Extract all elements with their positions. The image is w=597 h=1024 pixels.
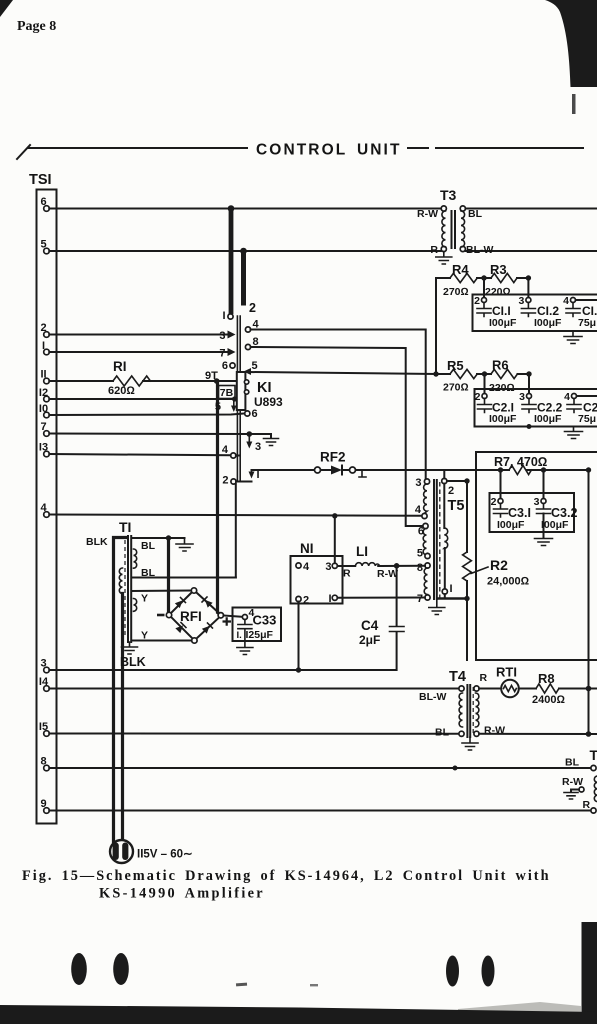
terminal 4 — [44, 512, 50, 518]
svg-text:5: 5 — [215, 401, 221, 413]
resistor R1 — [113, 376, 150, 386]
RF1 corner left — [166, 612, 171, 617]
svg-text:RFI: RFI — [180, 609, 202, 624]
K1 contact 7 arrow — [228, 348, 236, 356]
T5 bottom wire — [436, 597, 467, 600]
wire C2 pin4 to right edge — [577, 395, 597, 397]
wire RT1 to R8 — [519, 688, 536, 690]
T3 pin right-top — [460, 206, 465, 211]
svg-text:II5V – 60∼: II5V – 60∼ — [137, 849, 193, 861]
title rule left slant — [17, 145, 30, 159]
capacitor C2.2 symbol — [522, 399, 536, 413]
wire R8 to right bus — [559, 688, 597, 690]
svg-text:BL: BL — [468, 208, 483, 220]
svg-text:I00μF: I00μF — [534, 317, 562, 329]
node C4 tap — [394, 563, 400, 569]
ground below T3 — [436, 252, 452, 264]
svg-text:I25μF: I25μF — [246, 629, 274, 641]
svg-text:620Ω: 620Ω — [108, 385, 135, 397]
svg-text:R-W: R-W — [377, 568, 398, 580]
wire T5 pin2 to R2 — [447, 480, 467, 482]
ground below T5 — [429, 599, 445, 615]
terminal 12 — [44, 396, 50, 402]
wire terminal 9 R bus — [49, 810, 591, 812]
svg-text:BL: BL — [141, 540, 156, 552]
heavy drop bar from wire5 to K1 — [241, 251, 246, 306]
scan corner mark top-left — [0, 0, 13, 17]
K1 pin 4 — [245, 327, 250, 332]
node junction wire5 — [240, 248, 247, 255]
wire to ground stub — [249, 434, 271, 438]
ground at T2 tap — [564, 793, 578, 800]
K1 contact 1 arrow — [251, 470, 253, 474]
terminal 7 — [44, 431, 50, 437]
T3 left winding — [442, 211, 446, 247]
terminal 14 — [44, 686, 50, 692]
T4 pin right-bottom — [474, 731, 479, 736]
wire tap to ground — [571, 790, 579, 793]
RF1 corner top — [191, 588, 196, 593]
terminal 1 — [44, 349, 50, 355]
svg-text:R-W: R-W — [562, 776, 583, 788]
svg-text:3: 3 — [40, 658, 46, 670]
T5 pin 4 — [422, 513, 427, 518]
svg-text:T4: T4 — [449, 669, 466, 685]
svg-text:75μ: 75μ — [578, 413, 596, 425]
N1 pin 4 — [296, 563, 301, 568]
svg-text:I2: I2 — [39, 387, 48, 399]
svg-text:BL: BL — [435, 727, 450, 739]
capacitor C1.1 symbol — [477, 303, 491, 317]
svg-text:I0: I0 — [39, 403, 48, 415]
terminal 10 — [44, 412, 50, 418]
svg-text:3: 3 — [534, 496, 540, 508]
T5 winding 8-7 — [424, 568, 427, 594]
capacitor bank C3 box — [490, 493, 575, 532]
coil tap lower — [244, 390, 248, 394]
diode RF2 — [321, 469, 332, 471]
punch hole right 2 — [482, 956, 495, 987]
wire terminal 2 to K1 pin3 — [49, 334, 228, 336]
C33 pin 4 — [242, 615, 247, 620]
node R8 bus — [586, 686, 592, 692]
node after R6 — [526, 371, 531, 376]
svg-text:I: I — [222, 310, 225, 322]
svg-text:R: R — [480, 672, 488, 684]
capacitor C1.2 symbol — [521, 303, 535, 317]
T4 right winding — [476, 693, 479, 727]
vertical wire R4 to R5 — [435, 278, 437, 374]
wire T3 lower to right edge — [466, 250, 597, 252]
T5 pin 3 — [424, 479, 429, 484]
svg-text:R6: R6 — [492, 358, 509, 373]
node R7 bus right — [586, 467, 591, 472]
node R4-R3 — [481, 275, 486, 280]
svg-text:R-W: R-W — [417, 208, 438, 220]
svg-text:R7, 470Ω: R7, 470Ω — [494, 455, 547, 469]
wire C1 pin4 to right edge — [576, 299, 597, 301]
terminal 6 — [44, 206, 50, 212]
C3 pin 3 — [541, 499, 546, 504]
thermistor RT1 — [501, 680, 519, 698]
terminal 15 — [44, 731, 50, 737]
svg-text:2: 2 — [222, 475, 228, 487]
wire terminal 10 to K1 pin6L — [49, 414, 244, 416]
svg-text:U893: U893 — [254, 395, 283, 409]
K1 contact 3 arrow — [228, 331, 236, 339]
svg-text:R: R — [343, 568, 351, 580]
svg-text:C3.2: C3.2 — [551, 506, 577, 520]
svg-text:2μF: 2μF — [359, 633, 380, 647]
node below C2.2 — [527, 424, 532, 429]
RF1 diode upper-left — [175, 598, 186, 609]
svg-text:3: 3 — [255, 441, 261, 453]
C1 pin 2 — [482, 298, 487, 303]
wire down to C3 pin3 — [543, 470, 545, 499]
svg-text:3: 3 — [415, 477, 421, 489]
terminal strip TS1 box — [37, 190, 57, 824]
coil tap upper — [244, 380, 248, 384]
svg-text:3: 3 — [519, 295, 525, 307]
node 9T junction — [214, 378, 220, 384]
node BL tap — [166, 535, 171, 540]
wire terminal 8 BL bus — [49, 767, 591, 769]
svg-text:I3: I3 — [39, 442, 48, 454]
RF1 diode lower-right — [202, 623, 213, 634]
wire T4 R to RT1 — [479, 688, 501, 690]
terminal 2 — [44, 332, 50, 338]
node on BL bus — [453, 766, 458, 771]
svg-text:RI: RI — [113, 359, 127, 374]
svg-text:CONTROL UNIT: CONTROL UNIT — [256, 142, 402, 159]
wire terminal 12 to K1 7B — [49, 398, 237, 400]
svg-text:2: 2 — [491, 496, 497, 508]
T5 pin 2 — [442, 478, 447, 483]
node R7 right — [541, 467, 546, 472]
svg-text:RTI: RTI — [496, 665, 517, 680]
C2 pin 4 — [572, 394, 577, 399]
svg-text:2: 2 — [40, 322, 46, 334]
ground at T1 BL — [176, 538, 193, 551]
T3 pin left-top — [441, 206, 446, 211]
wire K1 pin4 to T5 pin3 — [251, 330, 426, 479]
C2 pin 3 — [527, 394, 532, 399]
svg-text:I.: I. — [237, 630, 242, 641]
wire R4 R3 row — [436, 277, 530, 279]
resistor R4 — [450, 273, 477, 282]
capacitor C2.1 symbol — [478, 399, 492, 413]
node wire7 junction — [247, 431, 253, 437]
wire T5 pin1 down — [444, 594, 446, 598]
terminal 8 — [44, 765, 50, 771]
K1 pin 6 lower — [245, 411, 250, 416]
svg-text:2: 2 — [475, 391, 481, 403]
T1 secondary upper winding — [134, 549, 137, 568]
wire terminal 5 to T3 — [49, 250, 441, 252]
svg-text:II: II — [40, 369, 46, 381]
svg-text:4: 4 — [415, 504, 422, 516]
svg-text:6: 6 — [40, 196, 46, 208]
wire K1 pin2 down to T1 BL — [136, 484, 236, 578]
wire BL lower tap — [132, 577, 236, 579]
terminal 11 — [44, 378, 50, 384]
transformer T5 core — [434, 480, 437, 599]
wire RF2 to R7 bus — [356, 469, 589, 471]
T4 pin left-top — [459, 686, 464, 691]
node R5-R6 — [482, 371, 487, 376]
T5 winding 3-4 — [424, 484, 427, 513]
capacitor C1.3 symbol — [566, 303, 580, 317]
node R5 feed — [433, 371, 438, 376]
svg-text:270Ω: 270Ω — [443, 286, 469, 298]
wire T3 to right edge top — [466, 208, 597, 210]
C3 pin 2 — [498, 499, 503, 504]
T3 pin right-bottom — [460, 246, 465, 251]
wire down to C1 pin2 — [483, 278, 485, 298]
ground below C1 bank — [564, 331, 582, 344]
punch hole left 2 — [113, 953, 129, 985]
punch hole left 1 — [71, 953, 87, 985]
T4 pin left-bottom — [459, 731, 464, 736]
svg-text:T3: T3 — [440, 187, 457, 203]
wire down to C2 pin3 — [528, 374, 530, 394]
scan speck 1 — [236, 983, 247, 987]
wire N1 pin2 down to bus3 — [298, 602, 300, 670]
wire K1 pin5 to R5 node — [249, 372, 436, 374]
svg-text:T: T — [590, 747, 597, 763]
svg-text:4: 4 — [303, 561, 310, 573]
ground below T4 — [462, 737, 478, 750]
node after R3 — [526, 275, 531, 280]
svg-text:24,000Ω: 24,000Ω — [487, 576, 530, 588]
wire T4 R-W to right — [479, 733, 597, 735]
ground below C2 bank — [565, 427, 583, 439]
N1 pin 3 — [332, 563, 337, 568]
ground at T1 core bottom — [122, 642, 138, 654]
ground at K1 — [264, 439, 279, 446]
svg-text:7: 7 — [219, 348, 225, 360]
capacitor C3.2 symbol — [537, 504, 551, 514]
K1 pin 2 lower — [231, 479, 236, 484]
svg-text:I: I — [328, 593, 331, 605]
svg-text:R4: R4 — [452, 262, 469, 277]
svg-text:5: 5 — [417, 548, 423, 560]
svg-text:TSI: TSI — [29, 172, 52, 188]
T1 primary lead left / power cord line 1 — [114, 538, 128, 844]
svg-text:R5: R5 — [447, 358, 464, 373]
K1 contact 3 lower arrow — [248, 434, 250, 443]
C1 pin 3 — [526, 298, 531, 303]
T3 core — [452, 211, 456, 248]
resistor R7 — [509, 465, 531, 474]
wire R5 R6 row — [436, 373, 530, 375]
T5 right winding — [443, 484, 445, 528]
T5 pin 5 — [425, 553, 430, 558]
heavy wire BL tap down to RF1 minus — [167, 538, 170, 612]
svg-text:I: I — [450, 583, 453, 595]
terminal 3 — [44, 667, 50, 673]
svg-text:3: 3 — [219, 330, 225, 342]
capacitor C3.1 symbol — [494, 504, 508, 518]
svg-text:4: 4 — [563, 295, 569, 307]
capacitor bank C2 box — [475, 389, 597, 427]
inductor L1 — [337, 565, 355, 567]
scan blob top-right — [545, 0, 597, 87]
svg-text:2: 2 — [249, 301, 256, 315]
svg-text:R: R — [583, 799, 591, 811]
resistor R3 — [491, 273, 517, 282]
T1 primary winding / power cord line 2 — [119, 568, 122, 594]
svg-text:C33: C33 — [253, 613, 277, 628]
resistor R6 — [491, 369, 517, 378]
svg-text:Y: Y — [141, 593, 148, 605]
power plug — [110, 840, 133, 863]
svg-text:5: 5 — [252, 360, 258, 372]
ground below C33 — [237, 641, 253, 655]
svg-text:7: 7 — [417, 593, 423, 605]
wire down to C1 pin3 — [527, 278, 529, 298]
label minus — [157, 614, 165, 617]
T2 tap circle — [579, 787, 584, 792]
svg-text:I4: I4 — [39, 676, 49, 688]
K1 pin 6 upper — [230, 363, 235, 368]
svg-text:220Ω: 220Ω — [485, 286, 511, 298]
wire Y upper to RF1 top — [132, 590, 192, 593]
terminal 9 — [44, 808, 50, 814]
svg-text:R8: R8 — [538, 671, 555, 686]
wire terminal 1 to K1 pin7 — [49, 351, 228, 353]
svg-text:LI: LI — [356, 544, 368, 559]
svg-text:C3.I: C3.I — [508, 506, 531, 520]
node N1 pin2 tap — [296, 667, 301, 672]
svg-text:2: 2 — [303, 595, 309, 607]
capacitor C4 — [396, 566, 398, 626]
wire down to C2 pin2 — [484, 374, 486, 394]
svg-text:BL-W: BL-W — [466, 244, 493, 256]
wire terminal 14 to T4 — [49, 688, 459, 690]
svg-text:RF2: RF2 — [320, 450, 346, 465]
svg-text:KI: KI — [257, 380, 272, 396]
terminal 5 — [44, 248, 50, 254]
wire terminal 6 to T3 — [49, 208, 441, 210]
svg-text:4: 4 — [40, 502, 47, 514]
svg-text:CI.2: CI.2 — [537, 304, 559, 318]
ground below C3.2 — [535, 539, 553, 546]
wire K1 pin8 to T5 pin6 — [251, 347, 423, 526]
svg-text:6: 6 — [222, 360, 228, 372]
svg-text:I00μF: I00μF — [541, 519, 569, 531]
heavy wire 9T down to RF1 plus — [218, 381, 221, 614]
wire R2 bus down to box bottom — [466, 599, 468, 661]
scan smudge bottom right — [458, 1002, 581, 1012]
wire terminal 3 bus — [49, 669, 396, 671]
punch hole right 1 — [446, 956, 459, 987]
svg-text:7B: 7B — [220, 387, 234, 399]
diode RF2 left pin — [315, 467, 321, 473]
resistor R2 — [466, 481, 468, 552]
title rule right segments — [408, 147, 583, 149]
svg-text:R2: R2 — [490, 557, 508, 573]
label plus — [223, 617, 232, 625]
T5 winding 6-5 — [423, 529, 427, 555]
svg-text:75μ: 75μ — [578, 317, 596, 329]
wire N1 pin1 to T5 pin7 — [337, 597, 425, 599]
RF1 corner bottom — [192, 638, 197, 643]
svg-text:270Ω: 270Ω — [443, 382, 469, 394]
wire N1 pin3 up to bus4 — [334, 516, 336, 563]
svg-text:I00μF: I00μF — [489, 317, 517, 329]
svg-text:KS-14990 Amplifier: KS-14990 Amplifier — [99, 886, 265, 902]
title rule left segment — [28, 147, 247, 149]
svg-text:CI.: CI. — [582, 304, 597, 318]
wire RF1 plus to C33 — [224, 616, 243, 617]
svg-text:3: 3 — [519, 391, 525, 403]
svg-text:8: 8 — [40, 756, 46, 768]
wire down to C3 pin2 — [500, 470, 502, 499]
right vertical bus — [588, 470, 590, 734]
T4 left winding — [459, 693, 462, 727]
T5 pin 1 — [442, 589, 447, 594]
small contact mark after RF2 — [359, 472, 366, 478]
svg-text:T5: T5 — [448, 498, 465, 514]
RF1 diode lower-left — [175, 623, 186, 634]
svg-text:2400Ω: 2400Ω — [532, 694, 565, 706]
svg-text:NI: NI — [300, 541, 314, 556]
node N1 pin3 tap — [332, 513, 337, 518]
label 7B boxed — [219, 386, 236, 399]
T3 right winding — [461, 211, 465, 247]
svg-text:8: 8 — [417, 562, 423, 574]
unit N1 box — [291, 556, 343, 604]
heavy drop bar from wire6 to K1 — [229, 208, 234, 314]
C2 pin 2 — [482, 394, 487, 399]
svg-text:Fig. 15—Schematic Drawing of K: Fig. 15—Schematic Drawing of KS-14964, L… — [22, 868, 551, 884]
wire terminal 13 to K1 pin4L — [49, 454, 230, 455]
svg-text:I00μF: I00μF — [534, 413, 562, 425]
node R7 left — [498, 467, 503, 472]
svg-text:2: 2 — [448, 485, 454, 497]
scan black band bottom — [0, 1005, 597, 1024]
svg-text:I5: I5 — [39, 721, 48, 733]
svg-text:3: 3 — [325, 561, 331, 573]
svg-text:BL: BL — [565, 757, 580, 769]
T5 pin 7 — [425, 595, 430, 600]
svg-text:I: I — [42, 340, 45, 352]
capacitor C33 box — [233, 608, 282, 642]
scan black strip right — [582, 922, 597, 1024]
capacitor C2.3 symbol — [567, 399, 581, 413]
node wire12 end — [232, 396, 237, 401]
svg-text:4: 4 — [564, 391, 570, 403]
svg-text:6: 6 — [252, 408, 258, 420]
svg-text:Page 8: Page 8 — [17, 19, 56, 34]
T2 partial winding — [594, 776, 597, 802]
resistor R8 — [536, 684, 559, 693]
relay coil K1 — [237, 372, 246, 410]
capacitor bank C1 box — [473, 295, 597, 332]
svg-text:C4: C4 — [361, 618, 379, 633]
resistor R5 — [450, 369, 477, 378]
svg-text:9: 9 — [40, 798, 46, 810]
svg-text:R: R — [430, 244, 438, 256]
svg-text:BLK: BLK — [86, 536, 108, 548]
T4 pin right-top — [474, 686, 479, 691]
svg-text:2: 2 — [474, 295, 480, 307]
svg-text:I00μF: I00μF — [489, 413, 517, 425]
T3 pin left-bottom — [441, 246, 446, 251]
svg-text:CI.I: CI.I — [492, 304, 511, 318]
stub T5 pin2 up to bus — [443, 470, 445, 478]
